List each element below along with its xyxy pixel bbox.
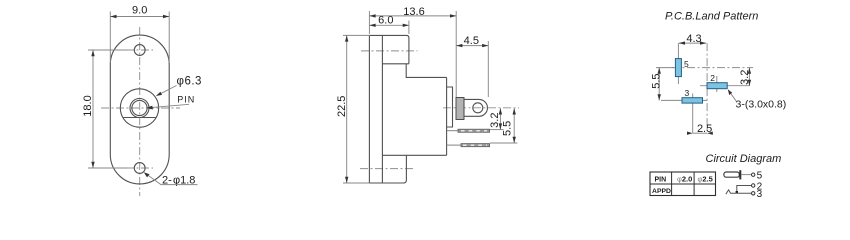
svg-text:φ2.0: φ2.0 [677, 174, 692, 183]
dimension 2.5 [693, 132, 707, 134]
dimension 13.6 extension lines [368, 11, 370, 34]
svg-text:P.C.B.Land Pattern: P.C.B.Land Pattern [665, 11, 758, 23]
switch spring chevron [726, 190, 731, 194]
svg-text:φ2.5: φ2.5 [698, 174, 713, 183]
dimension 6.0 extension line [408, 21, 410, 35]
pad 5 centerline [677, 43, 679, 84]
lug hole [473, 103, 483, 113]
svg-text:18.0: 18.0 [82, 95, 94, 116]
centerline top hole [126, 49, 153, 51]
dimension 3.2 [499, 108, 501, 129]
svg-text:3-(3.0x0.8): 3-(3.0x0.8) [736, 99, 787, 111]
svg-text:13.6: 13.6 [403, 6, 424, 18]
leader 3-(3.0x0.8) [730, 92, 737, 102]
svg-text:3.2: 3.2 [739, 70, 751, 85]
pin ring outer [130, 99, 149, 118]
pad 2 tick [716, 76, 718, 92]
barrel bottom edge [382, 63, 409, 65]
dimension 22.5 [346, 35, 348, 183]
barrel centerline [361, 50, 418, 52]
svg-text:2.5: 2.5 [697, 123, 712, 135]
flange plate line [381, 35, 383, 183]
flange outline (stadium) [110, 35, 169, 184]
dimension 18.0 [92, 50, 94, 168]
terminal 2 [752, 184, 755, 187]
leader phi6.3 [158, 86, 177, 96]
dimension 4.3 [679, 42, 706, 44]
terminal 3 [752, 192, 755, 195]
dimension 4.5 extension line [487, 41, 489, 97]
dimension 3.2 extension line [490, 129, 504, 131]
table row divider [650, 183, 716, 185]
svg-text:3: 3 [685, 88, 690, 98]
svg-text:φ6.3: φ6.3 [177, 76, 202, 88]
plug barrel [724, 172, 739, 177]
wire to terminal 3 [730, 192, 751, 194]
key flat chord [123, 117, 155, 119]
dimension 9.0 extension lines [109, 12, 111, 64]
pad 3 tick [692, 94, 694, 134]
pad 5 [675, 59, 681, 77]
leader PIN [150, 104, 190, 107]
lug centerline [443, 107, 519, 109]
body left edge [368, 35, 370, 183]
terminal step block [447, 87, 453, 127]
svg-text:Circuit Diagram: Circuit Diagram [706, 153, 782, 165]
pin 1 [447, 130, 459, 132]
dimension 5.5 [513, 108, 515, 143]
horizontal axis [672, 67, 753, 69]
svg-text:PIN: PIN [177, 95, 195, 105]
svg-text:2: 2 [710, 73, 715, 83]
body bottom edge [382, 154, 446, 156]
step to body top [406, 64, 446, 78]
solder lug [464, 99, 487, 116]
dimension 4.5 [456, 45, 488, 47]
horizontal centerline big hole [101, 107, 180, 109]
svg-text:22.5: 22.5 [336, 96, 348, 117]
svg-text:5: 5 [684, 59, 689, 69]
dimension 5.5 extension [656, 67, 674, 69]
svg-text:3.2: 3.2 [489, 113, 501, 128]
dimension 13.6 [369, 15, 456, 17]
spec table outline [650, 172, 716, 196]
svg-text:9.0: 9.0 [132, 5, 147, 17]
terminal 5 [752, 173, 755, 176]
svg-text:PIN: PIN [654, 176, 666, 183]
body right edge [446, 77, 448, 155]
dimension 18.0 extension lines [88, 49, 128, 51]
svg-text:3: 3 [757, 189, 763, 200]
svg-text:5: 5 [757, 171, 763, 182]
leader 2-phi1.8 [146, 174, 197, 185]
mounting hole top [134, 45, 145, 56]
barrel top edge [369, 35, 409, 63]
dimension 9.0 [110, 16, 169, 18]
centerline bottom hole [126, 167, 153, 169]
pin ring inner [132, 100, 147, 115]
svg-text:APPD: APPD [652, 188, 671, 195]
dimension 6.0 [369, 24, 409, 26]
foot box [369, 155, 406, 183]
pad 2 centerline [700, 85, 749, 87]
switch contact dot [736, 191, 738, 193]
dimension 3.2 [748, 68, 750, 86]
svg-text:4.5: 4.5 [464, 35, 479, 47]
foot centerline [360, 168, 414, 170]
svg-text:6.0: 6.0 [378, 15, 393, 27]
pin 2 [447, 144, 462, 146]
mounting hole bottom [134, 163, 145, 174]
vertical axis [706, 43, 708, 133]
svg-text:5.5: 5.5 [502, 121, 514, 136]
pad 3 centerline [661, 99, 707, 101]
dimension 5.5 extension line [490, 142, 517, 144]
jack opening outer circle [120, 89, 158, 127]
svg-text:5.5: 5.5 [651, 73, 663, 88]
dimension 5.5 [658, 68, 660, 101]
svg-text:4.3: 4.3 [686, 33, 701, 45]
plug tip bar [739, 170, 741, 179]
bushing block [456, 98, 464, 120]
pad 2 [707, 83, 727, 89]
pad 3 [682, 98, 703, 103]
vertical centerline [139, 27, 141, 196]
wire to terminal 5 [742, 174, 752, 176]
table column dividers [671, 172, 673, 196]
dimension 22.5 extension lines [343, 34, 369, 36]
wire to terminal 2 [737, 186, 752, 193]
